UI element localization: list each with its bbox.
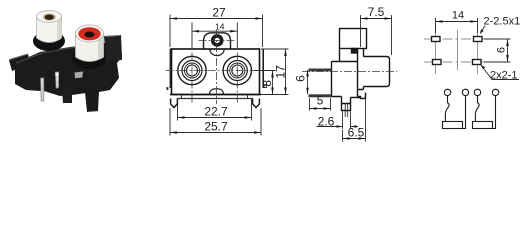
- red jack cylinder: [76, 33, 104, 62]
- dim 5 extension lines: [310, 98, 331, 111]
- arrows dim 22.7: [178, 116, 185, 119]
- dim 17 line: [285, 49, 287, 95]
- photo tab highlight: [10, 54, 29, 60]
- arrows dim 14: [192, 30, 199, 33]
- white jack base: [33, 31, 65, 51]
- dim 27 line: [170, 18, 263, 20]
- photo leg mid: [62, 89, 72, 103]
- front horizontal centerline: [166, 70, 267, 72]
- dim 6.5 ext lines: [343, 100, 366, 142]
- dim 2.6 ext lines: [343, 112, 351, 130]
- svg-text:6: 6: [496, 47, 508, 53]
- schematic switch contact 3: [475, 96, 479, 122]
- arrows dim 27: [170, 17, 177, 20]
- front left leg: [171, 99, 178, 108]
- fp horizontal centerline top: [424, 38, 492, 40]
- dim 8 extension line: [254, 70, 276, 72]
- photo body top-left tab: [9, 54, 30, 71]
- pad bottom-right: [473, 60, 482, 65]
- white jack hole rim: [43, 13, 56, 21]
- side bottom leg: [342, 97, 361, 111]
- pad top-left: [432, 37, 441, 42]
- photo pin 2 highlight: [56, 73, 59, 77]
- dim 14 extension lines: [192, 23, 237, 49]
- side tab: [340, 29, 367, 49]
- front tab hole ring: [213, 36, 222, 45]
- front bottom center bump: [210, 89, 224, 95]
- svg-text:2x2-1: 2x2-1: [490, 70, 518, 82]
- red jack red ring: [78, 27, 100, 40]
- dim 25.7 extension lines: [170, 108, 261, 136]
- pad top-right: [474, 37, 483, 42]
- svg-text:25.7: 25.7: [204, 119, 228, 133]
- front right lug: [263, 84, 267, 88]
- svg-text:22.7: 22.7: [204, 105, 228, 119]
- red jack shade: [98, 33, 104, 59]
- dim 6(side) line: [307, 70, 309, 94]
- dim 6(fp) ext: [484, 39, 511, 62]
- side centerline: [302, 71, 397, 73]
- dim 6.5 line: [343, 138, 366, 140]
- schematic pin circle 2: [462, 89, 468, 95]
- schematic switch contact 1: [445, 96, 449, 122]
- photo leg right highlight: [88, 110, 97, 113]
- svg-text:27: 27: [212, 6, 226, 20]
- arrows dim 7.5: [361, 17, 368, 20]
- photo body top edge highlight: [16, 44, 100, 63]
- arrows dim 5: [310, 107, 317, 110]
- side flange: [358, 49, 364, 97]
- red jack top rim: [76, 25, 104, 42]
- arrows dim 6(side): [306, 70, 309, 77]
- schematic pin circle 3: [474, 89, 480, 95]
- dim 14(fp) ext: [436, 18, 478, 33]
- dim 17 extension lines: [261, 49, 289, 95]
- dim 22.7 line: [178, 117, 252, 119]
- schematic shield 1: [443, 122, 463, 129]
- dim 14 line: [192, 30, 237, 32]
- front body outline: [172, 49, 260, 95]
- svg-text:5: 5: [317, 94, 324, 108]
- front flange tick left: [181, 95, 183, 99]
- front left jack vertical centerline: [191, 53, 193, 105]
- svg-text:6: 6: [294, 75, 308, 82]
- photo pin 2: [55, 72, 58, 88]
- side dim texts: [294, 5, 385, 140]
- fp vertical centerline left: [435, 26, 437, 74]
- arrows dim 25.7: [170, 131, 177, 134]
- front left lug: [166, 87, 168, 90]
- schematic wire 2: [463, 96, 466, 129]
- dim 22.7 extension lines: [178, 99, 252, 121]
- left jack circles: [178, 56, 206, 84]
- svg-text:8: 8: [260, 80, 274, 87]
- arrows dim 2.6: [337, 125, 343, 128]
- schematic wire 4: [493, 96, 496, 129]
- arrows dim 6.5: [343, 137, 350, 140]
- side leg pin: [345, 104, 348, 118]
- footprint centerlines: [424, 39, 492, 62]
- footprint dims: [436, 18, 520, 80]
- dim 5 line: [310, 108, 331, 110]
- dim 27 extension lines: [170, 15, 263, 48]
- photo body main mass: [15, 40, 122, 96]
- dim 8 line: [272, 71, 274, 95]
- dim 2.6 line: [317, 126, 359, 128]
- schematic shield 2: [473, 122, 493, 129]
- front middle vertical centerline: [216, 30, 218, 104]
- white jack hole: [45, 15, 54, 20]
- svg-text:7.5: 7.5: [368, 5, 385, 19]
- arrow leader 2x2-1: [481, 65, 485, 69]
- dim 6(fp) line: [507, 39, 509, 62]
- photo body highlight notch: [75, 72, 84, 79]
- svg-text:2.6: 2.6: [318, 114, 335, 128]
- fp vertical centerline mid: [457, 30, 459, 70]
- arrows dim 14(fp): [436, 20, 443, 23]
- front dim texts: [204, 6, 287, 134]
- side dimensions: [308, 15, 392, 142]
- dim 7.5 extension lines: [361, 15, 392, 55]
- front bottom flange line: [177, 98, 252, 100]
- fp horizontal centerline bottom: [424, 61, 492, 63]
- svg-text:17: 17: [273, 65, 287, 79]
- right jack circles: [223, 56, 251, 84]
- svg-text:14: 14: [452, 10, 464, 22]
- side upper pin: [309, 69, 332, 72]
- side tab to body connector: [339, 49, 341, 62]
- red jack hole: [85, 32, 95, 38]
- leader 2-2.5x1: [480, 26, 485, 34]
- photo pin 1: [41, 78, 44, 101]
- front flange tick right: [247, 95, 249, 99]
- schematic pin circle 1: [444, 89, 450, 95]
- side body: [332, 62, 358, 97]
- white jack cylinder: [37, 16, 62, 43]
- photo leg right: [85, 91, 99, 112]
- pad bottom-left: [433, 60, 442, 65]
- front tab horizontal centerline: [199, 39, 236, 41]
- svg-text:2-2.5x1: 2-2.5x1: [484, 16, 521, 28]
- front right leg: [253, 99, 260, 108]
- photo right tab highlight: [105, 36, 120, 37]
- front dimensions: [170, 15, 289, 136]
- schematic pin circle 4: [492, 89, 498, 95]
- svg-text:6.5: 6.5: [348, 126, 365, 140]
- leader 2x2-1: [481, 65, 519, 80]
- arrows dim 6(fp): [506, 39, 509, 46]
- front centerlines: [166, 30, 267, 104]
- side body right foot: [358, 93, 366, 99]
- arrow leader 2-2.5x1: [480, 29, 484, 34]
- side lower pin: [309, 94, 332, 97]
- front bottom lip: [170, 94, 261, 96]
- svg-text:14: 14: [215, 21, 225, 31]
- front right lug hole: [264, 85, 266, 87]
- dim 25.7 line: [170, 132, 261, 134]
- front body outer wall left: [169, 49, 171, 88]
- dim 7.5 line: [361, 18, 392, 20]
- side hole mark: [352, 49, 358, 54]
- front right jack vertical centerline: [236, 53, 238, 105]
- front body outer wall right: [262, 49, 264, 88]
- front top bump (down): [210, 49, 224, 56]
- photo body right tab: [104, 35, 122, 61]
- white jack top: [37, 11, 62, 23]
- side barrel: [364, 57, 390, 87]
- dim 14(fp) line: [436, 21, 478, 23]
- side barrel centerline: [302, 71, 397, 73]
- red jack base: [72, 49, 106, 69]
- arrows dim 8: [271, 71, 274, 78]
- fp vertical centerline right: [477, 26, 479, 74]
- arrows dim 17: [284, 49, 287, 56]
- front top tab dome: [204, 33, 231, 49]
- white jack shade: [57, 16, 62, 40]
